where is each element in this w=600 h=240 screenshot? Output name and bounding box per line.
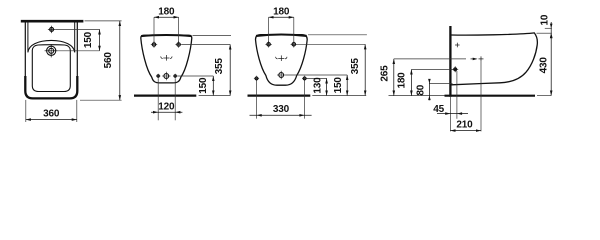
floor thin extension right [312,95,366,97]
svg-text:430: 430 [538,57,549,74]
svg-text:330: 330 [273,104,290,115]
dim 360 left extension [25,100,27,122]
svg-text:265: 265 [379,65,390,82]
body outline [256,35,308,86]
dim 130 line [326,78,328,95]
svg-text:45: 45 [433,104,444,115]
dim 10 upper tick [545,27,552,29]
drain symbol [161,55,172,61]
svg-text:355: 355 [350,58,361,75]
inlet level leader [394,58,466,60]
fixing hole right [177,43,180,46]
svg-text:355: 355 [214,58,225,75]
dim 180 line [154,16,179,18]
svg-text:150: 150 [83,31,94,48]
drain symbol (view3) [276,55,287,61]
fixing hole left (view3) [267,43,270,46]
dim 180 line (view4) [410,70,412,96]
svg-text:210: 210 [456,119,473,130]
fixing hole right (view3) [292,43,295,46]
dim 560 bottom extension [80,99,122,101]
bolt leader (view3) [307,77,327,79]
dim 80 line [428,79,430,100]
fixing cross (45 from wall) [455,44,460,46]
faucet hole [50,28,54,32]
dim 150 line (view2) [212,76,214,96]
svg-text:80: 80 [415,84,426,95]
body outline [25,22,77,98]
svg-text:120: 120 [158,101,175,112]
bolt level leader [411,69,452,71]
floor thin extension right [199,95,231,97]
body top edge thick [256,35,307,36]
dim 330 line [250,114,312,116]
dim 10 line and arrows [550,22,552,33]
svg-text:180: 180 [158,6,175,17]
floor line [248,94,311,96]
dim 210 line [450,130,481,132]
fixing hole leader (view3) [297,43,365,45]
fixing hole leader [182,44,230,46]
dim 120 right extension [174,78,176,120]
dim 180 right extension (view3) [293,17,295,44]
dim 120 left extension [157,78,159,120]
outlet cross [479,58,484,60]
floor thin extension right [537,95,551,97]
body outline [141,35,192,83]
floor line (thick) [445,95,536,97]
overflow leader [58,50,100,52]
overflow hole [47,46,56,55]
dim 45 line [437,113,468,115]
svg-text:180: 180 [397,72,408,89]
wall bolt left (view3) [255,77,258,80]
dim 330 left extension [256,80,258,118]
dim 360 line [26,119,77,121]
wall bolt right (view3) [303,77,306,80]
drain centerline [480,61,482,131]
dim 180 right extension [178,17,180,44]
dim 330 right extension [304,80,306,118]
rim top extension (view3) [308,34,367,36]
dim 180 left extension [153,17,155,44]
rim inner side right [74,22,76,52]
dim 265 line [393,59,395,96]
screw leader [177,75,213,77]
dim 355 line (view2) [229,45,231,96]
inlet leader (view3) [285,74,347,76]
body profile [452,33,538,85]
svg-text:180: 180 [273,6,290,17]
svg-text:150: 150 [333,77,344,94]
basin top arc [28,40,75,52]
wall line (top, thick) [21,20,84,23]
faucet leader [55,28,99,30]
fixing hole left [152,43,155,46]
dim 560 line [119,21,121,100]
foot screw left [157,75,159,77]
dim 120 line [151,111,182,113]
svg-text:360: 360 [43,109,60,120]
inlet symbol [164,74,169,79]
underside leader [429,82,452,84]
floor line [134,94,196,96]
wall bolt (side) [454,68,457,71]
dim 150 line (view3) [346,75,348,96]
outlet arrow symbol [471,58,477,60]
svg-text:560: 560 [103,52,114,69]
dim 360 right extension [76,100,78,122]
dim 180 left extension (view3) [268,17,270,44]
dim 45 wall extension [449,97,451,132]
rim top extension (view2) [193,34,232,36]
svg-text:150: 150 [198,77,209,94]
dim 430 line [550,33,552,95]
basin inner outline [32,45,70,92]
dim 150 line [99,29,101,50]
rim tip extension [537,32,552,34]
wall line [449,26,451,97]
floor thin extension left [389,95,445,97]
inlet symbol (view3) [279,73,284,78]
dim 355 line (view3) [364,44,366,95]
svg-text:10: 10 [539,14,550,25]
dim 560 top extension [85,20,122,22]
rim inner side left [27,22,29,52]
dim 180 line (view3) [269,16,294,18]
foot screw right [174,75,176,77]
svg-text:130: 130 [312,77,323,94]
body top edge thick [141,35,191,36]
dim 45 bolt extension [456,71,458,119]
body bottom thick stroke [25,76,77,98]
